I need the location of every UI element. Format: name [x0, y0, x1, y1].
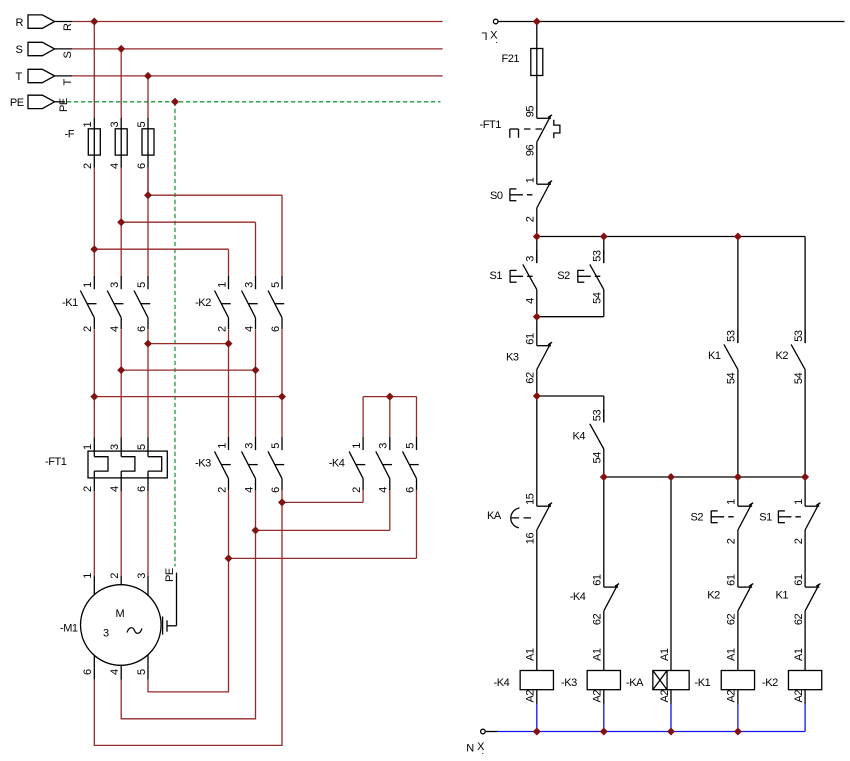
- svg-text:1: 1: [726, 499, 738, 505]
- node K2-1 link: [225, 340, 233, 348]
- wire S0 2 to row: [536, 208, 538, 237]
- contactor -K4 pole 1-2: [349, 437, 365, 493]
- pushbutton S2 53-54: [557, 237, 604, 304]
- svg-text:A1: A1: [726, 648, 738, 661]
- node S tap: [117, 45, 125, 53]
- svg-text:2: 2: [216, 487, 228, 493]
- wire motor 4 to K3-4: [121, 530, 255, 718]
- wire K2 out to -K3 pole3: [255, 370, 257, 437]
- overload relay -FT1: [45, 437, 167, 492]
- wire K2 54 down: [804, 370, 806, 477]
- terminal R: [16, 15, 74, 31]
- svg-text:6: 6: [270, 326, 282, 332]
- wire S2 54 to row3: [537, 290, 604, 317]
- svg-text:-K3: -K3: [195, 457, 211, 469]
- svg-text:53: 53: [592, 410, 604, 422]
- svg-text:L: L: [482, 29, 488, 41]
- svg-text:-F: -F: [65, 129, 75, 141]
- node PE tap: [171, 98, 179, 106]
- svg-text:K2: K2: [776, 350, 789, 362]
- node rail5/K1coil: [734, 473, 742, 481]
- svg-text:S2: S2: [557, 270, 570, 282]
- wire K4 54 to row5: [603, 449, 605, 477]
- wire -FT1 4 to motor 2: [120, 491, 122, 576]
- svg-text:3: 3: [525, 256, 537, 262]
- auxiliary contact K2 53-54: [776, 237, 806, 385]
- svg-text:5: 5: [404, 443, 416, 449]
- fuse F21: [502, 22, 543, 76]
- svg-text:3: 3: [109, 122, 121, 128]
- node rail5/KA: [667, 473, 675, 481]
- svg-text:2: 2: [216, 326, 228, 332]
- svg-text:54: 54: [592, 292, 604, 304]
- wire T drop to fuse: [147, 76, 149, 118]
- svg-text:A2: A2: [726, 690, 738, 703]
- svg-text:3: 3: [109, 444, 121, 450]
- wire -KA A2 to neutral: [670, 690, 672, 732]
- svg-text:1: 1: [82, 282, 94, 288]
- pushbutton S0 1-2: [490, 177, 552, 222]
- svg-text:5: 5: [270, 282, 282, 288]
- node N/-K4: [533, 728, 541, 736]
- wire S1 4 to row3: [536, 290, 538, 317]
- svg-text:-K2: -K2: [195, 297, 211, 309]
- svg-text:-K2: -K2: [762, 677, 778, 689]
- wire K3-1/K4-5 link: [229, 490, 417, 558]
- wire -FT1 2 to motor 1: [93, 491, 95, 576]
- wire rail5 to -KA coil: [670, 477, 672, 671]
- wire K4 star bridge: [363, 397, 416, 437]
- interlock contact -K4 61-62: [570, 477, 619, 625]
- node rail5/K4: [600, 473, 608, 481]
- svg-text:A1: A1: [525, 648, 537, 661]
- contactor -K3 pole 1-2: [215, 437, 231, 493]
- svg-text:K3: K3: [506, 352, 519, 364]
- svg-text:2: 2: [82, 163, 94, 169]
- svg-text:2: 2: [793, 538, 805, 544]
- svg-text:62: 62: [726, 613, 738, 625]
- svg-text:5: 5: [270, 443, 282, 449]
- node rail5/S1: [801, 473, 809, 481]
- label -K3: [195, 457, 211, 469]
- svg-text:5: 5: [136, 444, 148, 450]
- wire T to K2 pole5: [148, 168, 282, 277]
- node row4 junction: [533, 392, 541, 400]
- coil -KA: [626, 648, 689, 702]
- svg-text:S0: S0: [490, 190, 503, 202]
- wire -FT1 6 to motor 3: [147, 491, 149, 576]
- svg-text:62: 62: [525, 372, 537, 384]
- svg-text:K4: K4: [573, 431, 586, 443]
- wire K2 out to -K3 pole5: [281, 397, 283, 437]
- wire K1-3/K2-3 link: [121, 330, 255, 371]
- node K3-5/K4-1: [278, 498, 286, 506]
- wire S to K2 pole3: [121, 222, 255, 276]
- contactor -K1 pole 1-2: [80, 276, 96, 332]
- svg-text:-K1: -K1: [62, 297, 78, 309]
- wire K2 out to -K3 pole1: [228, 344, 230, 437]
- svg-text:1: 1: [82, 122, 94, 128]
- svg-text::: :: [495, 35, 497, 46]
- svg-text:-K3: -K3: [561, 677, 577, 689]
- svg-text:6: 6: [136, 486, 148, 492]
- wire R to K2 pole1: [94, 249, 228, 276]
- wire control rail 5: [604, 476, 805, 478]
- svg-text:R: R: [62, 23, 74, 31]
- wire -K4 A2 to neutral: [536, 690, 538, 732]
- svg-text:1: 1: [793, 499, 805, 505]
- label -K2: [195, 297, 211, 309]
- node R/K2 junction: [90, 245, 98, 253]
- terminal T: [16, 69, 74, 85]
- wire T drop to K1: [147, 168, 149, 277]
- svg-text:5: 5: [136, 122, 148, 128]
- wire K1 54 down: [737, 370, 739, 477]
- svg-text:M: M: [116, 608, 125, 620]
- wire phase S bus: [72, 48, 442, 50]
- svg-text:-M1: -M1: [60, 623, 78, 635]
- svg-text:1: 1: [525, 177, 537, 183]
- svg-text:4: 4: [109, 669, 121, 675]
- svg-text:3: 3: [378, 443, 390, 449]
- auxiliary contact K3 61-62: [506, 317, 552, 384]
- wire S1 2 down: [804, 530, 806, 587]
- svg-text:4: 4: [109, 486, 121, 492]
- svg-text:-FT1: -FT1: [45, 456, 67, 468]
- svg-text:S1: S1: [759, 511, 772, 523]
- node N/-K3: [600, 728, 608, 736]
- terminal S: [16, 42, 74, 58]
- svg-text:1: 1: [82, 573, 94, 579]
- wire K3 62 to row4: [536, 370, 538, 397]
- svg-text:6: 6: [136, 326, 148, 332]
- svg-text:6: 6: [136, 163, 148, 169]
- node K2-5 link: [278, 393, 286, 401]
- wire motor 5 to K3-2: [148, 558, 229, 692]
- auxiliary contact K1 53-54: [708, 237, 738, 385]
- svg-text:96: 96: [525, 144, 537, 156]
- wire -K3 A2 to neutral: [603, 690, 605, 732]
- svg-text:-K4: -K4: [494, 677, 510, 689]
- svg-text:4: 4: [109, 326, 121, 332]
- svg-text:61: 61: [726, 574, 738, 586]
- node K1-5 link: [144, 340, 152, 348]
- node K2-3 link: [252, 366, 260, 374]
- node K3-1/K4-5: [225, 554, 233, 562]
- wire PE bus (dashed): [67, 101, 441, 103]
- svg-text:K2: K2: [707, 590, 720, 602]
- svg-text:53: 53: [592, 250, 604, 262]
- wire F21 to -FT1 95: [536, 76, 538, 119]
- contactor -K3 pole 3-4: [242, 437, 258, 493]
- motor PE lead: [163, 568, 177, 634]
- fuse -F pole 1-2: [82, 118, 100, 169]
- svg-text:1: 1: [351, 443, 363, 449]
- fuse -F pole 3-4: [109, 118, 127, 169]
- label -F: [65, 129, 75, 141]
- node N/-KA: [667, 728, 675, 736]
- svg-text:6: 6: [82, 669, 94, 675]
- svg-text:2: 2: [726, 538, 738, 544]
- svg-text:T: T: [62, 79, 74, 86]
- relay contact KA 15-16: [487, 396, 552, 544]
- wire K1-1/K2-5 link: [94, 330, 282, 397]
- pushbutton S1 1-2: [759, 477, 820, 544]
- svg-text:15: 15: [525, 493, 537, 505]
- svg-text:S: S: [62, 52, 74, 59]
- svg-text:4: 4: [243, 326, 255, 332]
- svg-text:A2: A2: [659, 690, 671, 703]
- svg-text:A1: A1: [659, 648, 671, 661]
- node K3-3/K4-3: [252, 526, 260, 534]
- svg-text:3: 3: [243, 443, 255, 449]
- svg-text:2: 2: [109, 573, 121, 579]
- wire S drop to fuse: [120, 49, 122, 118]
- wire R drop to fuse: [93, 22, 95, 119]
- node K1-1 link: [90, 393, 98, 401]
- node T tap: [144, 72, 152, 80]
- contactor -K2 pole 1-2: [215, 276, 231, 332]
- svg-text:A2: A2: [592, 690, 604, 703]
- terminal PE: [10, 95, 70, 112]
- svg-text:2: 2: [82, 326, 94, 332]
- svg-text:KA: KA: [487, 510, 502, 522]
- wire neutral rail: [485, 731, 805, 733]
- svg-text:2: 2: [525, 216, 537, 222]
- svg-text:T: T: [16, 71, 23, 83]
- svg-text:16: 16: [525, 533, 537, 545]
- svg-text:54: 54: [793, 372, 805, 384]
- svg-text:A2: A2: [793, 690, 805, 703]
- contactor -K2 pole 5-6: [268, 276, 284, 332]
- svg-text:4: 4: [109, 163, 121, 169]
- terminal -X:N: [466, 729, 485, 757]
- svg-text:5: 5: [136, 282, 148, 288]
- node rail2/S2: [600, 233, 608, 241]
- node L1 tap: [533, 18, 541, 26]
- svg-text:61: 61: [592, 574, 604, 586]
- svg-text:-K1: -K1: [695, 677, 711, 689]
- wire -FT1 96 to S0: [536, 142, 538, 184]
- svg-text:PE: PE: [164, 568, 176, 582]
- svg-text:62: 62: [793, 613, 805, 625]
- overload contact -FT1 95-96: [480, 106, 560, 156]
- node row3 junction: [533, 313, 541, 321]
- svg-text:S: S: [16, 44, 23, 56]
- node rail2/S1: [533, 233, 541, 241]
- svg-text:95: 95: [525, 106, 537, 118]
- wire -K2 A2 to neutral: [804, 690, 806, 732]
- motor -M1: [60, 573, 161, 680]
- svg-text:F21: F21: [502, 53, 520, 65]
- wire V feed to -FT1: [120, 370, 122, 437]
- svg-text:PE: PE: [58, 98, 70, 112]
- wire K3-5/K4-1 link: [282, 490, 363, 502]
- svg-text:-K4: -K4: [570, 591, 586, 603]
- svg-text:-KA: -KA: [626, 677, 644, 689]
- svg-text:61: 61: [793, 574, 805, 586]
- svg-text:1: 1: [82, 444, 94, 450]
- node K4 bridge junction: [386, 393, 394, 401]
- svg-text:53: 53: [726, 330, 738, 342]
- wire L1 top rail: [498, 21, 845, 23]
- svg-text:A1: A1: [592, 648, 604, 661]
- svg-text:PE: PE: [10, 97, 24, 109]
- pushbutton S1 3-4: [490, 237, 537, 304]
- wire K2 62 to -K1 coil: [737, 611, 739, 671]
- wire phase R bus: [72, 21, 442, 23]
- wire row4 to K4 contact: [537, 395, 604, 397]
- wire K1-5/K2-1 link: [148, 330, 229, 344]
- wire U feed to -FT1: [93, 397, 95, 438]
- contactor -K1 pole 3-4: [107, 276, 123, 332]
- svg-text:6: 6: [270, 487, 282, 493]
- svg-text:3: 3: [109, 282, 121, 288]
- node S/K2 junction: [117, 218, 125, 226]
- svg-text:5: 5: [136, 669, 148, 675]
- svg-text:54: 54: [592, 452, 604, 464]
- svg-text:1: 1: [216, 282, 228, 288]
- svg-text:4: 4: [378, 487, 390, 493]
- contactor -K4 pole 3-4: [376, 437, 392, 493]
- wire K1 62 to -K2 coil: [804, 611, 806, 671]
- node T/K2 junction: [144, 191, 152, 199]
- svg-text:3: 3: [136, 573, 148, 579]
- terminal -X:L: [482, 19, 499, 46]
- contactor -K2 pole 3-4: [242, 276, 258, 332]
- svg-text:K1: K1: [776, 590, 789, 602]
- svg-text::: :: [481, 746, 483, 757]
- wire motor 6 to K3-6: [94, 502, 282, 745]
- svg-text:2: 2: [82, 486, 94, 492]
- svg-text:3: 3: [103, 628, 109, 640]
- svg-text:62: 62: [592, 613, 604, 625]
- svg-text:4: 4: [525, 298, 537, 304]
- node rail2/K1: [734, 233, 742, 241]
- node R tap: [90, 18, 98, 26]
- label -K4: [329, 457, 345, 469]
- svg-text:A1: A1: [793, 648, 805, 661]
- wire PE drop (dashed): [174, 102, 176, 567]
- svg-text:2: 2: [351, 487, 363, 493]
- svg-text:4: 4: [243, 487, 255, 493]
- node K1-3 link: [117, 366, 125, 374]
- svg-text:S2: S2: [691, 511, 704, 523]
- interlock contact K1 61-62: [776, 574, 821, 625]
- fuse -F pole 5-6: [136, 118, 154, 169]
- svg-text:53: 53: [793, 330, 805, 342]
- label -K1: [62, 297, 78, 309]
- svg-text:N: N: [466, 742, 474, 754]
- wire R drop to K1: [93, 168, 95, 277]
- coil -K2: [762, 648, 822, 702]
- wire -K4 62 to -K3 coil: [603, 611, 605, 671]
- svg-text:-K4: -K4: [329, 457, 345, 469]
- auxiliary contact K4 53-54: [573, 396, 604, 464]
- contactor -K1 pole 5-6: [134, 276, 150, 332]
- svg-text:6: 6: [404, 487, 416, 493]
- coil -K3: [561, 648, 620, 702]
- wire W feed to -FT1: [147, 344, 149, 438]
- svg-text:-FT1: -FT1: [480, 119, 502, 131]
- interlock contact K2 61-62: [707, 574, 753, 625]
- coil -K4: [494, 648, 554, 702]
- wire KA 16 to -K4 coil: [536, 530, 538, 671]
- wire S2 2 down: [737, 530, 739, 587]
- node N/-K1: [734, 728, 742, 736]
- wire -K1 A2 to neutral: [737, 690, 739, 732]
- wire S drop to K1: [120, 168, 122, 277]
- svg-text:R: R: [16, 17, 24, 29]
- contactor -K3 pole 5-6: [268, 437, 284, 493]
- svg-text:K1: K1: [708, 350, 721, 362]
- svg-text:3: 3: [243, 282, 255, 288]
- svg-text:54: 54: [726, 372, 738, 384]
- wire K3-3/K4-3 link: [256, 490, 390, 530]
- svg-text:61: 61: [525, 333, 537, 345]
- wire control rail 2: [537, 236, 805, 238]
- contactor -K4 pole 5-6: [403, 437, 419, 493]
- svg-text:1: 1: [216, 443, 228, 449]
- svg-text:A2: A2: [525, 690, 537, 703]
- svg-text:S1: S1: [490, 270, 503, 282]
- coil -K1: [695, 648, 755, 702]
- wire phase T bus: [72, 75, 442, 77]
- pushbutton S2 1-2: [691, 477, 754, 544]
